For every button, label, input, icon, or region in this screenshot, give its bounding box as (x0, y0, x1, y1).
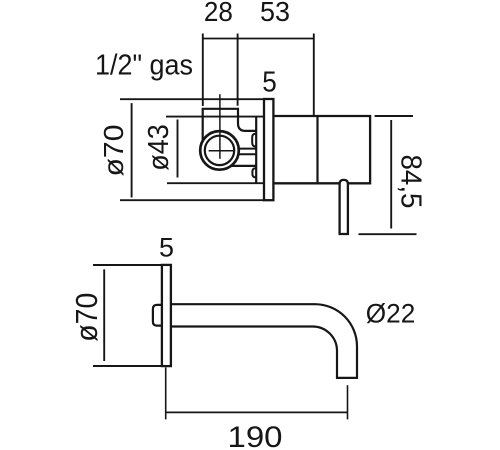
dia43 extension bottom (167, 182, 264, 184)
dia70 dimension line bottom-view (103, 269, 105, 361)
handle stem (340, 180, 348, 234)
crosshair horizontal (209, 150, 233, 152)
svg-text:53: 53 (260, 0, 290, 27)
svg-text:1/2" gas: 1/2" gas (95, 50, 193, 82)
svg-text:84,5: 84,5 (395, 155, 427, 209)
trim body divider (316, 116, 318, 183)
spout outline (171, 304, 357, 378)
set screw bar bottom (238, 153, 256, 155)
dia43 extension top (166, 116, 264, 118)
190 extension right (347, 385, 349, 419)
set screw bar top (238, 148, 256, 150)
svg-text:5: 5 (262, 66, 277, 98)
cartridge circle outer (200, 131, 239, 170)
svg-text:ø70: ø70 (69, 293, 104, 342)
190 extension left (165, 368, 167, 420)
svg-text:ø43: ø43 (143, 124, 175, 171)
84,5 extension top (375, 115, 413, 117)
svg-text:Ø22: Ø22 (366, 299, 416, 329)
dia70 extension top bottom-view (93, 264, 162, 266)
extension line left (28) (202, 34, 204, 107)
crosshair vertical centerline (219, 94, 221, 159)
dia43 dimension line (177, 120, 179, 178)
dia70 dimension line (131, 103, 133, 197)
trim body right of plate (273, 116, 370, 183)
extension line middle (28/53) (237, 34, 239, 106)
84,5 dimension line (390, 120, 392, 229)
dia70 extension bottom (120, 199, 264, 201)
flange bump 1 (252, 134, 256, 147)
wall plate top view (264, 99, 273, 200)
svg-text:5: 5 (159, 232, 174, 262)
svg-text:190: 190 (228, 421, 283, 450)
svg-text:ø70: ø70 (98, 125, 129, 177)
valve body block (203, 109, 257, 141)
pipe stub behind plate (153, 305, 162, 326)
valve body bottom step (231, 165, 256, 167)
190 dimension line (166, 411, 348, 413)
dimension line 28/53 (203, 38, 314, 40)
cartridge circle inner (205, 136, 234, 165)
flange bump 2 (252, 168, 256, 177)
flange left edge (255, 117, 257, 183)
dia70 extension top (120, 98, 264, 100)
svg-text:28: 28 (204, 0, 233, 27)
extension line right (53) (313, 34, 315, 116)
dia70 extension bottom bottom-view (93, 365, 162, 367)
wall plate bottom view (162, 265, 171, 366)
84,5 extension bottom (359, 233, 417, 235)
